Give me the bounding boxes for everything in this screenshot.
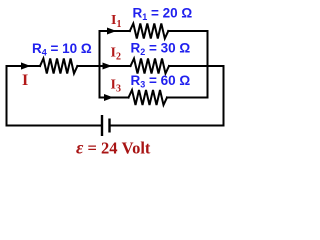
svg-text:R2 = 30 Ω: R2 = 30 Ω <box>131 41 191 58</box>
resistor R2 <box>131 59 170 74</box>
wire right inner vertical <box>207 31 209 98</box>
battery short plate <box>108 119 110 133</box>
wire main horizontal to R4 <box>7 65 41 67</box>
wire branch2 left <box>100 65 131 67</box>
arrow I1 on branch1 <box>107 28 117 35</box>
svg-text:I: I <box>22 72 28 89</box>
wire branch2 right <box>169 65 224 67</box>
arrow I on main wire <box>21 62 31 69</box>
resistor R1 <box>130 24 169 39</box>
wire left junction vertical <box>99 31 101 98</box>
arrow I2 on branch2 <box>103 63 113 70</box>
svg-text:R4 = 10 Ω: R4 = 10 Ω <box>32 41 92 58</box>
wire branch1 right <box>168 30 207 32</box>
resistor R3 <box>129 90 168 105</box>
wire left vertical <box>6 66 8 126</box>
wire R4 to junction <box>77 65 99 67</box>
wire bottom left segment <box>7 125 103 127</box>
svg-text:ε = 24 Volt: ε = 24 Volt <box>76 138 151 158</box>
battery long plate <box>101 115 103 136</box>
arrow I3 on branch3 <box>104 94 114 101</box>
svg-text:R3 = 60 Ω: R3 = 60 Ω <box>131 73 191 90</box>
wire branch3 right <box>167 97 208 99</box>
wire bottom right segment <box>110 125 224 127</box>
wire branch3 left <box>100 97 129 99</box>
svg-text:R1 = 20 Ω: R1 = 20 Ω <box>133 5 193 22</box>
wire branch1 left <box>100 30 130 32</box>
wire right outer vertical <box>223 66 225 126</box>
resistor R4 <box>40 59 77 74</box>
